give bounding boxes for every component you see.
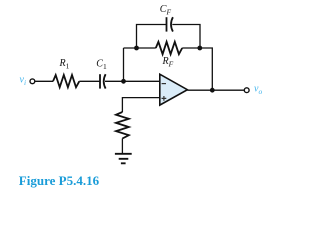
node junction dot left feedback bbox=[134, 46, 139, 51]
wire op-amp output bbox=[187, 89, 244, 91]
wire node A up to feedback branch bbox=[123, 48, 125, 81]
node output junction dot bbox=[210, 88, 215, 93]
wire CF right vertical bbox=[172, 25, 200, 49]
wire RF right segment to output drop bbox=[182, 48, 212, 90]
resistor R1 bbox=[53, 75, 79, 87]
wire noninverting input bbox=[122, 98, 159, 112]
svg-text:RF: RF bbox=[162, 56, 174, 69]
op-amp U1 bbox=[160, 74, 188, 105]
svg-text:C1: C1 bbox=[96, 58, 107, 71]
svg-text:R1: R1 bbox=[59, 58, 70, 71]
terminal vi bbox=[30, 79, 35, 84]
terminal vo bbox=[244, 88, 249, 93]
wire feedback branch left segment bbox=[124, 47, 156, 49]
node junction dot right feedback bbox=[197, 46, 202, 51]
wire C1 to op-amp inverting input bbox=[105, 80, 160, 82]
ground bbox=[115, 154, 132, 164]
svg-text:vo: vo bbox=[254, 84, 262, 97]
svg-text:vi: vi bbox=[20, 75, 27, 88]
svg-text:Figure P5.4.16: Figure P5.4.16 bbox=[19, 173, 100, 188]
wire R1 to C1 bbox=[79, 80, 100, 82]
resistor R2 vertical bbox=[116, 112, 129, 139]
svg-text:CF: CF bbox=[160, 4, 172, 17]
node A junction dot bbox=[121, 79, 126, 84]
wire input to R1 bbox=[35, 80, 53, 82]
wire resistor to ground bbox=[121, 139, 123, 154]
capacitor C1 bbox=[99, 74, 101, 88]
capacitor CF bbox=[166, 17, 168, 31]
op-amp plus sign bbox=[162, 96, 167, 101]
resistor RF bbox=[156, 42, 182, 54]
op-amp minus sign bbox=[162, 83, 166, 85]
wire CF left vertical bbox=[137, 25, 167, 49]
